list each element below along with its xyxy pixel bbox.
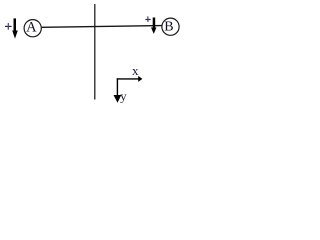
svg-text:A: A: [26, 20, 37, 36]
svg-text:x: x: [132, 63, 139, 78]
x-axis arrow: [117, 76, 143, 82]
ammeter A: [24, 20, 41, 37]
svg-text:y: y: [120, 88, 127, 103]
label x: [132, 63, 139, 78]
polarity + right: [145, 16, 150, 22]
svg-text:B: B: [164, 20, 173, 35]
ammeter B: [162, 18, 179, 35]
wire from A to B: [42, 26, 162, 28]
label y: [120, 88, 127, 103]
polarity + left: [5, 23, 12, 30]
current arrow left: [12, 18, 18, 38]
y-axis arrow: [114, 78, 122, 103]
wire vertical divider line: [94, 4, 96, 100]
current arrow right: [151, 18, 157, 34]
